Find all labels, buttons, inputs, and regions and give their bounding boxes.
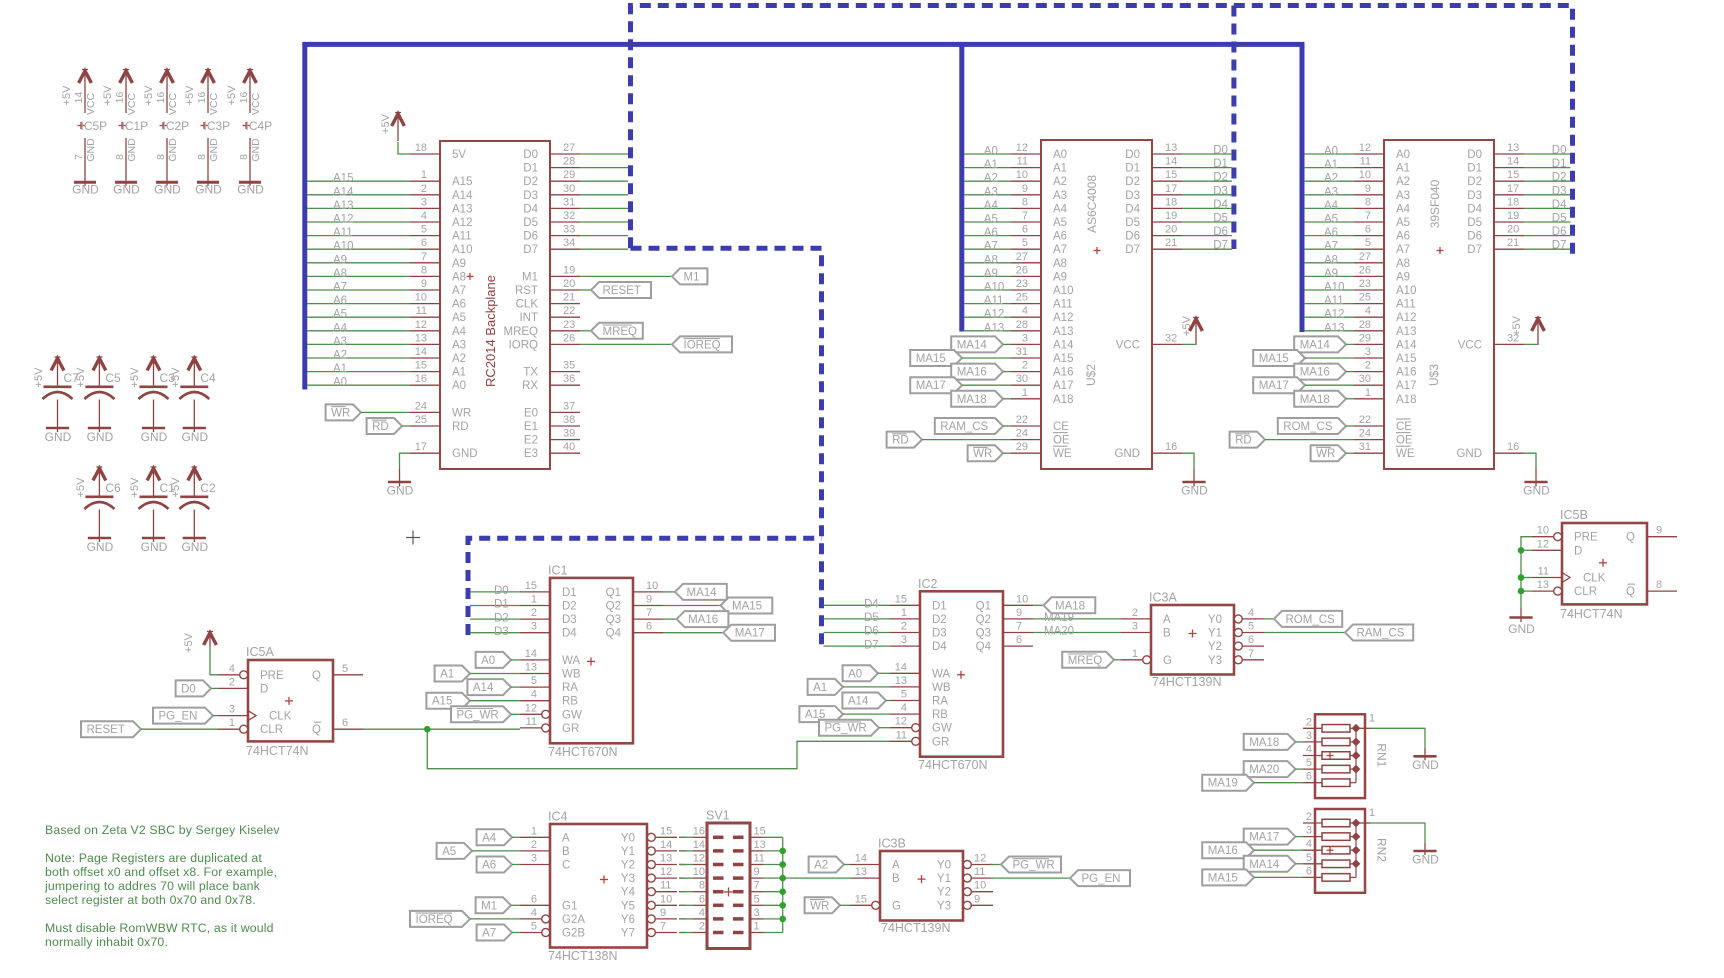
svg-text:26: 26 <box>1359 264 1371 276</box>
svg-text:3: 3 <box>901 634 907 646</box>
svg-text:RST: RST <box>515 285 538 297</box>
svg-text:Q1: Q1 <box>606 587 621 599</box>
svg-text:6: 6 <box>646 621 652 633</box>
svg-text:19: 19 <box>1507 210 1519 222</box>
svg-text:5: 5 <box>901 689 907 701</box>
svg-text:2: 2 <box>1022 360 1028 372</box>
svg-text:D2: D2 <box>1467 176 1482 188</box>
svg-text:D1: D1 <box>1467 163 1482 175</box>
svg-text:G: G <box>892 900 901 912</box>
svg-text:A9: A9 <box>333 254 347 266</box>
svg-text:27: 27 <box>563 142 575 154</box>
svg-text:12: 12 <box>525 702 537 714</box>
svg-text:GND: GND <box>87 430 114 444</box>
svg-text:D7: D7 <box>1125 244 1140 256</box>
svg-text:D0: D0 <box>181 683 196 695</box>
svg-text:22: 22 <box>1359 414 1371 426</box>
svg-text:G1: G1 <box>562 900 577 912</box>
svg-text:27: 27 <box>1359 251 1371 263</box>
svg-text:6: 6 <box>1022 224 1028 236</box>
svg-text:10: 10 <box>660 893 672 905</box>
svg-text:A5: A5 <box>442 846 456 858</box>
svg-text:CE: CE <box>1396 421 1412 433</box>
svg-text:3: 3 <box>421 196 427 208</box>
svg-text:A3: A3 <box>1396 190 1410 202</box>
svg-text:D5: D5 <box>1125 217 1140 229</box>
svg-text:IC2P: IC2P <box>163 119 190 133</box>
svg-text:14: 14 <box>660 839 672 851</box>
svg-text:4: 4 <box>1022 305 1028 317</box>
svg-text:A12: A12 <box>984 309 1004 321</box>
svg-text:14: 14 <box>855 853 867 865</box>
svg-text:33: 33 <box>563 224 575 236</box>
svg-text:A1: A1 <box>333 363 347 375</box>
svg-text:A3: A3 <box>452 339 466 351</box>
svg-text:39: 39 <box>563 428 575 440</box>
svg-text:A8: A8 <box>1053 258 1067 270</box>
svg-text:Q1: Q1 <box>976 600 991 612</box>
svg-text:23: 23 <box>1359 278 1371 290</box>
svg-text:D4: D4 <box>1467 203 1482 215</box>
svg-text:A18: A18 <box>1396 394 1416 406</box>
svg-text:A8: A8 <box>1396 258 1410 270</box>
svg-text:GND: GND <box>387 484 414 498</box>
svg-text:GND: GND <box>154 183 181 197</box>
svg-text:74HCT74N: 74HCT74N <box>246 744 309 758</box>
svg-text:D6: D6 <box>1467 231 1482 243</box>
svg-text:16: 16 <box>238 92 250 104</box>
svg-text:VCC: VCC <box>126 92 138 115</box>
svg-text:A3: A3 <box>1324 186 1338 198</box>
svg-text:A13: A13 <box>452 203 472 215</box>
svg-text:A7: A7 <box>1396 244 1410 256</box>
svg-text:GND: GND <box>72 183 99 197</box>
svg-text:WR: WR <box>973 448 992 460</box>
svg-text:D5: D5 <box>1213 213 1228 225</box>
svg-text:A0: A0 <box>1324 146 1338 158</box>
svg-text:A4: A4 <box>984 200 999 212</box>
svg-text:6: 6 <box>531 893 537 905</box>
svg-text:A16: A16 <box>1396 367 1416 379</box>
svg-text:D4: D4 <box>1213 199 1228 211</box>
svg-text:Note: Page Registers are dupli: Note: Page Registers are duplicated at <box>45 851 262 865</box>
svg-text:+5V: +5V <box>102 85 114 106</box>
svg-text:13: 13 <box>415 332 427 344</box>
svg-text:GND: GND <box>1181 484 1208 498</box>
svg-text:5: 5 <box>1248 621 1254 633</box>
svg-text:A7: A7 <box>1053 244 1067 256</box>
svg-text:4: 4 <box>531 907 537 919</box>
svg-text:D3: D3 <box>1125 190 1140 202</box>
svg-text:2: 2 <box>699 921 705 933</box>
svg-text:+5V: +5V <box>129 477 141 498</box>
svg-text:2: 2 <box>531 839 537 851</box>
svg-text:GND: GND <box>1508 622 1535 636</box>
svg-text:A15: A15 <box>1396 353 1416 365</box>
svg-text:D7: D7 <box>1467 244 1482 256</box>
svg-text:TX: TX <box>523 367 538 379</box>
svg-text:12: 12 <box>415 319 427 331</box>
svg-text:C4: C4 <box>200 371 216 385</box>
svg-text:A17: A17 <box>1053 380 1073 392</box>
svg-text:29: 29 <box>1016 441 1028 453</box>
svg-text:A13: A13 <box>984 322 1004 334</box>
svg-text:8: 8 <box>1656 579 1662 591</box>
svg-text:GND: GND <box>195 183 222 197</box>
svg-text:7: 7 <box>754 880 760 892</box>
svg-text:A0: A0 <box>1396 149 1410 161</box>
svg-text:IC5A: IC5A <box>246 645 274 659</box>
svg-text:10: 10 <box>1016 169 1028 181</box>
svg-text:8: 8 <box>114 154 126 160</box>
svg-text:7: 7 <box>1365 210 1371 222</box>
svg-text:19: 19 <box>1165 210 1177 222</box>
svg-text:GND: GND <box>45 430 72 444</box>
svg-text:A17: A17 <box>1396 380 1416 392</box>
svg-text:74HCT139N: 74HCT139N <box>881 921 950 935</box>
svg-text:VCC: VCC <box>1116 339 1140 351</box>
svg-text:15: 15 <box>855 893 867 905</box>
svg-text:OE: OE <box>1053 435 1070 447</box>
svg-text:A1: A1 <box>813 682 827 694</box>
svg-text:E0: E0 <box>524 407 538 419</box>
svg-text:GND: GND <box>237 183 264 197</box>
svg-text:D3: D3 <box>1552 185 1567 197</box>
svg-text:3: 3 <box>1365 346 1371 358</box>
svg-text:A15: A15 <box>452 176 472 188</box>
svg-text:2: 2 <box>229 676 235 688</box>
svg-text:36: 36 <box>563 373 575 385</box>
svg-text:A3: A3 <box>1053 190 1067 202</box>
svg-text:+5V: +5V <box>61 85 73 106</box>
svg-text:+5V: +5V <box>75 477 87 498</box>
svg-text:10: 10 <box>1537 525 1549 537</box>
svg-text:VCC: VCC <box>1458 339 1482 351</box>
svg-text:D: D <box>260 683 268 695</box>
svg-text:1: 1 <box>1369 807 1375 819</box>
svg-text:Q4: Q4 <box>976 641 992 653</box>
svg-text:1: 1 <box>1132 648 1138 660</box>
svg-text:E3: E3 <box>524 448 538 460</box>
svg-text:GW: GW <box>562 709 582 721</box>
svg-text:PG_WR: PG_WR <box>457 709 499 721</box>
svg-text:4: 4 <box>421 210 427 222</box>
svg-text:17: 17 <box>1165 183 1177 195</box>
svg-text:7: 7 <box>660 921 666 933</box>
svg-text:6: 6 <box>1016 634 1022 646</box>
svg-text:D3: D3 <box>932 628 947 640</box>
svg-text:GND: GND <box>1456 448 1482 460</box>
svg-text:D6: D6 <box>1125 231 1140 243</box>
svg-text:D6: D6 <box>1213 226 1228 238</box>
svg-text:D7: D7 <box>523 244 538 256</box>
svg-text:A6: A6 <box>984 227 998 239</box>
svg-text:+5V: +5V <box>129 367 141 388</box>
svg-text:Y3: Y3 <box>621 873 635 885</box>
svg-text:6: 6 <box>1306 865 1312 877</box>
svg-text:2: 2 <box>421 183 427 195</box>
svg-text:D2: D2 <box>494 612 509 624</box>
svg-text:RC2014 Backplane: RC2014 Backplane <box>483 275 498 387</box>
svg-text:5: 5 <box>531 675 537 687</box>
svg-text:A6: A6 <box>1396 231 1410 243</box>
svg-text:Q2: Q2 <box>606 601 621 613</box>
svg-text:14: 14 <box>73 92 85 104</box>
svg-text:9: 9 <box>1016 607 1022 619</box>
svg-text:IC3B: IC3B <box>878 837 906 851</box>
svg-text:MREQ: MREQ <box>1068 655 1103 667</box>
svg-text:34: 34 <box>563 237 575 249</box>
svg-text:1: 1 <box>1365 387 1371 399</box>
svg-text:3: 3 <box>1306 825 1312 837</box>
svg-text:A8: A8 <box>1324 254 1338 266</box>
svg-text:Y0: Y0 <box>937 860 951 872</box>
svg-text:D0: D0 <box>494 585 509 597</box>
svg-text:A1: A1 <box>1396 163 1410 175</box>
svg-text:IORQ: IORQ <box>509 339 538 351</box>
svg-text:4: 4 <box>1306 838 1312 850</box>
svg-text:MA15: MA15 <box>1259 353 1289 365</box>
svg-text:12: 12 <box>1537 538 1549 550</box>
svg-text:A4: A4 <box>1324 200 1339 212</box>
svg-text:8: 8 <box>421 264 427 276</box>
svg-text:M1: M1 <box>481 900 497 912</box>
svg-text:A12: A12 <box>1053 312 1073 324</box>
svg-text:30: 30 <box>563 183 575 195</box>
svg-text:A5: A5 <box>333 309 347 321</box>
svg-text:IOREQ: IOREQ <box>684 339 721 351</box>
svg-text:5: 5 <box>1306 852 1312 864</box>
svg-text:16: 16 <box>155 92 167 104</box>
svg-text:2: 2 <box>531 607 537 619</box>
svg-text:C2: C2 <box>200 481 216 495</box>
svg-text:D2: D2 <box>562 601 577 613</box>
svg-text:MREQ: MREQ <box>504 326 539 338</box>
svg-text:8: 8 <box>699 880 705 892</box>
svg-text:D0: D0 <box>1552 145 1567 157</box>
svg-text:10: 10 <box>693 866 705 878</box>
svg-text:40: 40 <box>563 441 575 453</box>
svg-text:MA16: MA16 <box>957 367 987 379</box>
svg-text:16: 16 <box>415 373 427 385</box>
svg-text:D6: D6 <box>864 626 879 638</box>
svg-text:GR: GR <box>562 723 579 735</box>
svg-text:16: 16 <box>114 92 126 104</box>
svg-text:D3: D3 <box>494 626 509 638</box>
svg-text:10: 10 <box>1016 593 1028 605</box>
svg-text:jumpering to addres 70 will pl: jumpering to addres 70 will place bank <box>44 879 261 893</box>
svg-text:D6: D6 <box>523 231 538 243</box>
svg-text:MA14: MA14 <box>1249 859 1280 871</box>
svg-text:31: 31 <box>563 196 575 208</box>
svg-text:RD: RD <box>452 421 469 433</box>
svg-text:RESET: RESET <box>87 724 125 736</box>
svg-text:MA17: MA17 <box>1259 380 1289 392</box>
svg-text:A9: A9 <box>1324 268 1338 280</box>
svg-text:MA17: MA17 <box>735 628 765 640</box>
svg-text:10: 10 <box>1359 169 1371 181</box>
svg-text:ROM_CS: ROM_CS <box>1283 421 1333 433</box>
svg-text:CLK: CLK <box>269 711 292 723</box>
svg-text:D5: D5 <box>1467 217 1482 229</box>
svg-text:A0: A0 <box>333 377 347 389</box>
svg-text:12: 12 <box>1359 142 1371 154</box>
svg-text:D0: D0 <box>523 149 538 161</box>
svg-text:18: 18 <box>415 142 427 154</box>
svg-text:7: 7 <box>1016 621 1022 633</box>
svg-text:D1: D1 <box>932 600 947 612</box>
svg-text:7: 7 <box>1022 210 1028 222</box>
svg-text:13: 13 <box>1537 579 1549 591</box>
svg-text:A5: A5 <box>1396 217 1410 229</box>
svg-text:CLR: CLR <box>1574 586 1597 598</box>
svg-text:3: 3 <box>229 704 235 716</box>
svg-text:14: 14 <box>693 839 705 851</box>
svg-text:74HCT74N: 74HCT74N <box>1560 607 1623 621</box>
svg-text:+5V: +5V <box>380 113 392 134</box>
svg-text:2: 2 <box>1306 811 1312 823</box>
svg-text:A2: A2 <box>452 353 466 365</box>
svg-text:A8: A8 <box>452 271 466 283</box>
svg-text:10: 10 <box>415 292 427 304</box>
svg-text:A5: A5 <box>1324 214 1338 226</box>
svg-text:D0: D0 <box>1467 149 1482 161</box>
svg-text:A2: A2 <box>814 860 828 872</box>
svg-text:A8: A8 <box>984 254 998 266</box>
svg-text:11: 11 <box>416 305 427 317</box>
svg-text:6: 6 <box>1306 771 1312 783</box>
svg-text:A: A <box>562 832 570 844</box>
svg-text:WR: WR <box>810 900 829 912</box>
svg-text:15: 15 <box>754 825 766 837</box>
svg-text:Y0: Y0 <box>621 832 635 844</box>
svg-text:WR: WR <box>452 407 471 419</box>
svg-text:9: 9 <box>754 866 760 878</box>
svg-text:C: C <box>562 860 570 872</box>
svg-text:74HCT670N: 74HCT670N <box>918 758 987 772</box>
svg-text:A0: A0 <box>452 380 466 392</box>
svg-text:Q2: Q2 <box>976 614 991 626</box>
svg-text:4: 4 <box>531 689 537 701</box>
svg-text:SV1: SV1 <box>706 809 730 823</box>
svg-text:A7: A7 <box>1324 241 1338 253</box>
svg-text:D1: D1 <box>1552 158 1567 170</box>
svg-text:A11: A11 <box>1324 295 1344 307</box>
svg-text:4: 4 <box>229 663 235 675</box>
svg-text:PG_EN: PG_EN <box>1082 873 1121 885</box>
svg-text:9: 9 <box>1656 525 1662 537</box>
svg-text:1: 1 <box>901 607 907 619</box>
svg-text:D3: D3 <box>523 190 538 202</box>
svg-text:MA18: MA18 <box>1055 600 1085 612</box>
svg-text:D4: D4 <box>1552 199 1567 211</box>
svg-text:GND: GND <box>87 540 114 554</box>
svg-text:A10: A10 <box>333 241 353 253</box>
svg-text:GR: GR <box>932 736 949 748</box>
svg-text:D2: D2 <box>932 614 947 626</box>
svg-text:31: 31 <box>1359 441 1371 453</box>
svg-text:22: 22 <box>563 305 575 317</box>
svg-text:74HCT670N: 74HCT670N <box>548 745 617 759</box>
svg-text:A0: A0 <box>848 668 862 680</box>
svg-text:D1: D1 <box>1213 158 1228 170</box>
svg-text:A7: A7 <box>984 241 998 253</box>
svg-text:9: 9 <box>660 907 666 919</box>
svg-text:MA20: MA20 <box>1249 764 1279 776</box>
svg-text:IC4: IC4 <box>548 810 568 824</box>
svg-text:A9: A9 <box>452 258 466 270</box>
svg-text:5V: 5V <box>452 149 466 161</box>
svg-text:1: 1 <box>531 594 537 606</box>
svg-text:32: 32 <box>1165 332 1177 344</box>
svg-text:GND: GND <box>85 138 97 162</box>
svg-text:Y1: Y1 <box>1208 628 1222 640</box>
svg-text:IC5P: IC5P <box>81 119 108 133</box>
svg-text:Y0: Y0 <box>1208 614 1222 626</box>
svg-text:A15: A15 <box>1053 353 1073 365</box>
svg-text:15: 15 <box>415 360 427 372</box>
svg-text:RN1: RN1 <box>1375 743 1389 767</box>
svg-text:A1: A1 <box>440 669 454 681</box>
svg-text:+5V: +5V <box>170 477 182 498</box>
svg-text:18: 18 <box>1507 196 1519 208</box>
svg-text:9: 9 <box>1365 183 1371 195</box>
svg-text:B: B <box>562 846 570 858</box>
svg-text:RB: RB <box>932 709 948 721</box>
svg-text:A8: A8 <box>333 268 347 280</box>
svg-text:6: 6 <box>1248 634 1254 646</box>
svg-text:A12: A12 <box>452 217 472 229</box>
svg-text:3: 3 <box>1132 621 1138 633</box>
svg-text:1: 1 <box>421 169 427 181</box>
svg-text:GND: GND <box>126 138 138 162</box>
svg-text:D4: D4 <box>864 599 879 611</box>
svg-text:A13: A13 <box>333 200 353 212</box>
svg-text:IOREQ: IOREQ <box>416 914 453 926</box>
svg-text:13: 13 <box>855 866 867 878</box>
svg-text:GND: GND <box>452 448 478 460</box>
svg-text:A0: A0 <box>1053 149 1067 161</box>
svg-text:A7: A7 <box>452 285 466 297</box>
svg-text:39SF040: 39SF040 <box>1428 179 1442 228</box>
svg-text:IC2: IC2 <box>918 577 938 591</box>
svg-text:Y7: Y7 <box>621 928 635 940</box>
svg-text:RB: RB <box>562 696 578 708</box>
svg-text:GND: GND <box>141 540 168 554</box>
svg-text:Q: Q <box>1626 532 1635 544</box>
svg-text:6: 6 <box>342 717 348 729</box>
svg-text:GND: GND <box>113 183 140 197</box>
svg-text:A14: A14 <box>333 186 354 198</box>
svg-text:+5V: +5V <box>226 85 238 106</box>
svg-text:G: G <box>1163 655 1172 667</box>
svg-text:Q: Q <box>1626 586 1635 598</box>
svg-text:D3: D3 <box>1213 185 1228 197</box>
svg-text:GND: GND <box>167 138 179 162</box>
svg-text:A1: A1 <box>1053 163 1067 175</box>
svg-text:A1: A1 <box>1324 159 1338 171</box>
svg-text:37: 37 <box>563 400 575 412</box>
svg-text:9: 9 <box>974 893 980 905</box>
svg-text:7: 7 <box>73 154 85 160</box>
svg-text:A12: A12 <box>1396 312 1416 324</box>
svg-text:D1: D1 <box>494 599 509 611</box>
svg-text:19: 19 <box>563 264 575 276</box>
svg-text:MA17: MA17 <box>916 380 946 392</box>
svg-text:8: 8 <box>1022 196 1028 208</box>
svg-text:24: 24 <box>415 400 427 412</box>
svg-text:35: 35 <box>563 360 575 372</box>
